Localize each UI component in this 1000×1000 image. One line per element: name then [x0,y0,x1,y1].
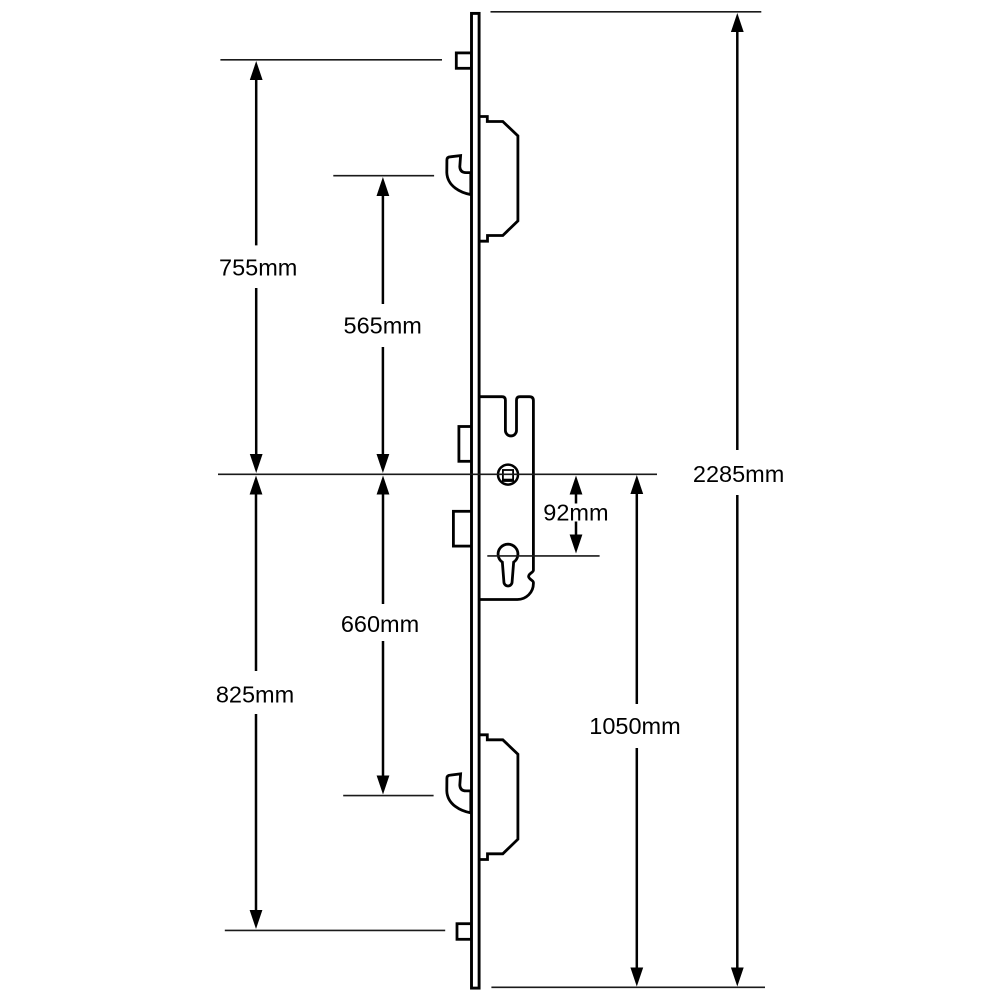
svg-text:565mm: 565mm [344,312,422,338]
svg-text:660mm: 660mm [341,611,419,637]
svg-text:1050mm: 1050mm [589,713,680,739]
svg-text:92mm: 92mm [543,499,608,525]
svg-text:2285mm: 2285mm [693,461,784,487]
svg-text:825mm: 825mm [216,682,294,708]
svg-text:755mm: 755mm [219,254,297,280]
